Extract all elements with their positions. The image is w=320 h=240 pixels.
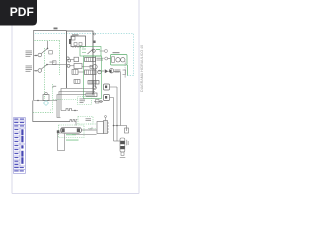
enclosure box (teal dashed) — [35, 34, 134, 76]
thermostat boxes B2 B3 — [104, 70, 126, 101]
terminal pins — [74, 80, 80, 84]
fuse F2 capsule — [61, 127, 97, 134]
note box lower (green dashed) — [78, 117, 93, 125]
wire bus to connector — [113, 98, 115, 142]
enclosure around fuse (green dashed) — [59, 125, 85, 138]
heater element R1 — [72, 70, 101, 75]
solenoid L1 — [61, 109, 78, 111]
pressure switch S1 — [38, 53, 42, 57]
wire left L-drop — [33, 101, 70, 122]
wire green right — [127, 65, 129, 76]
svg-text:PDF: PDF — [10, 5, 34, 19]
note box upper (green dashed) — [53, 99, 78, 101]
title block — [14, 118, 26, 174]
contacts K1 — [66, 57, 103, 62]
inductor L2 — [70, 120, 77, 122]
connector J1 — [120, 138, 129, 158]
wire internal bus — [95, 56, 97, 89]
wire top feed — [34, 30, 67, 32]
enclosure segments (green dashed) — [35, 40, 60, 42]
sensor B4 — [94, 100, 103, 104]
label text green — [66, 133, 76, 136]
label AB — [54, 28, 58, 30]
timer T1 box — [71, 36, 86, 47]
selector switch S3 — [80, 47, 101, 57]
dispenser D1 — [58, 133, 65, 151]
PDF badge — [0, 0, 37, 26]
contacts K2 with thermostat B1 — [67, 64, 97, 70]
wire lower bundle — [61, 89, 95, 111]
wire bottom-left with filter F1 — [34, 100, 57, 102]
wire supply vertical — [33, 30, 35, 101]
svg-text:DIAGRAMA HIDRAULICO 40: DIAGRAMA HIDRAULICO 40 — [140, 45, 144, 92]
capacitor C1 — [105, 57, 111, 60]
heater assembly R2 — [84, 56, 102, 99]
label text S2 — [26, 66, 33, 72]
wire green dashed left — [50, 84, 53, 110]
svg-text:VALVULA 3 VIAS: VALVULA 3 VIAS — [124, 61, 127, 78]
arrow indicator — [100, 50, 105, 52]
control unit U1 box — [67, 31, 94, 95]
pressure switch S2 — [38, 69, 42, 73]
valve V1 — [98, 69, 121, 74]
label text S1 — [26, 51, 33, 57]
relay K3 — [88, 116, 109, 134]
frame right border — [138, 0, 140, 194]
frame bottom border — [12, 193, 139, 195]
frame left border — [11, 0, 13, 194]
title block text — [14, 119, 24, 172]
motor M1 — [111, 52, 128, 65]
